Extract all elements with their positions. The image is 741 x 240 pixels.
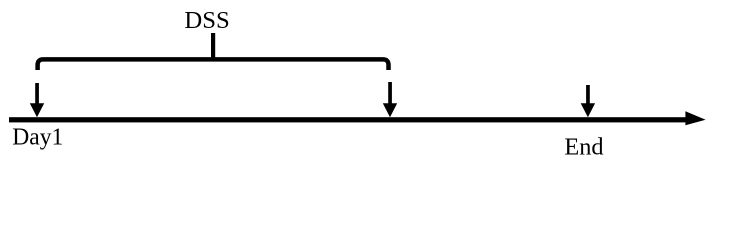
svg-text:Day1: Day1 (12, 124, 63, 151)
arrow 2 (DSS end marker) (383, 82, 397, 117)
svg-text:End: End (564, 133, 603, 160)
timeline axis (9, 117, 687, 122)
svg-text:DSS: DSS (184, 7, 229, 34)
timeline arrowhead (685, 111, 705, 125)
arrow 1 (Day1 marker) (30, 83, 44, 117)
bracket center tick (211, 33, 215, 59)
arrow 3 (End marker) (581, 85, 595, 117)
timeline diagram (0, 0, 741, 170)
bracket DSS span (38, 59, 389, 70)
